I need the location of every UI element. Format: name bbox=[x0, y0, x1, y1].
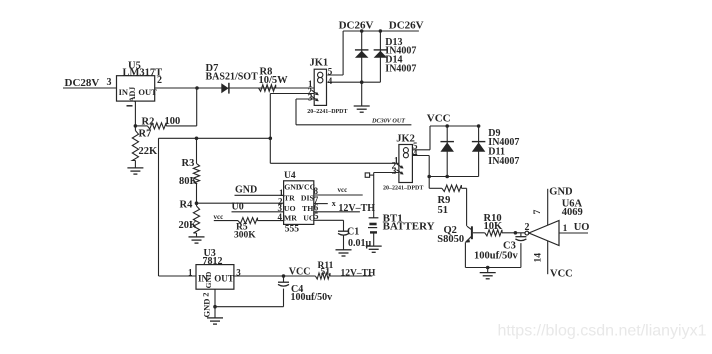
svg-text:5: 5 bbox=[314, 211, 319, 221]
svg-text:DC30V OUT: DC30V OUT bbox=[371, 118, 405, 125]
svg-text:UO: UO bbox=[574, 222, 590, 233]
svg-text:20K: 20K bbox=[179, 220, 199, 231]
svg-text:80K: 80K bbox=[179, 176, 199, 187]
svg-text:U4: U4 bbox=[284, 171, 296, 181]
svg-text:R4: R4 bbox=[180, 200, 194, 211]
svg-text:MR: MR bbox=[284, 214, 297, 223]
svg-text:DC26V: DC26V bbox=[339, 20, 374, 32]
svg-text:VCC: VCC bbox=[289, 267, 311, 278]
svg-text:GND: GND bbox=[202, 299, 212, 318]
svg-text:20–2241–DPDT: 20–2241–DPDT bbox=[383, 186, 423, 192]
svg-text:300K: 300K bbox=[234, 231, 256, 241]
svg-text:ADJ: ADJ bbox=[128, 87, 137, 103]
svg-text:vcc: vcc bbox=[214, 213, 224, 221]
svg-text:3: 3 bbox=[107, 77, 112, 88]
svg-text:12V–TH: 12V–TH bbox=[341, 268, 376, 278]
svg-text:3: 3 bbox=[308, 93, 313, 103]
svg-text:14: 14 bbox=[534, 253, 544, 263]
svg-text:IN4007: IN4007 bbox=[488, 156, 519, 167]
svg-text:DIS: DIS bbox=[301, 193, 314, 202]
svg-text:51: 51 bbox=[321, 268, 331, 278]
svg-text:R7: R7 bbox=[139, 129, 152, 140]
svg-text:3: 3 bbox=[392, 166, 397, 176]
svg-text:x: x bbox=[332, 199, 336, 208]
svg-text:TR: TR bbox=[284, 193, 295, 202]
svg-text:4: 4 bbox=[328, 76, 333, 86]
svg-text:R2: R2 bbox=[142, 116, 155, 127]
svg-text:2: 2 bbox=[157, 75, 162, 86]
svg-text:7812: 7812 bbox=[203, 256, 223, 267]
svg-text:https://blog.csdn.net/lianyiyx: https://blog.csdn.net/lianyiyx1 bbox=[498, 323, 707, 340]
svg-text:JK1: JK1 bbox=[310, 58, 329, 69]
svg-text:R3: R3 bbox=[182, 158, 195, 169]
svg-text:U0: U0 bbox=[232, 202, 244, 213]
svg-text:TH: TH bbox=[302, 204, 313, 213]
svg-text:22K: 22K bbox=[139, 146, 159, 157]
svg-text:10K: 10K bbox=[484, 221, 504, 232]
svg-text:UO: UO bbox=[284, 204, 296, 213]
svg-text:4: 4 bbox=[278, 212, 283, 222]
svg-text:GND: GND bbox=[549, 187, 573, 198]
svg-text:DC26V: DC26V bbox=[389, 20, 424, 32]
svg-text:100uf/50v: 100uf/50v bbox=[291, 292, 333, 303]
svg-text:10/5W: 10/5W bbox=[259, 75, 289, 86]
svg-text:0.01μ: 0.01μ bbox=[348, 238, 372, 249]
svg-text:OUT: OUT bbox=[138, 87, 157, 97]
svg-text:C1: C1 bbox=[347, 227, 359, 238]
svg-text:51: 51 bbox=[438, 205, 449, 216]
svg-text:VCC: VCC bbox=[550, 269, 573, 280]
svg-text:GND: GND bbox=[204, 271, 213, 288]
svg-text:BAS21/SOT: BAS21/SOT bbox=[206, 72, 259, 83]
svg-text:4069: 4069 bbox=[562, 207, 583, 218]
svg-text:GND: GND bbox=[235, 184, 257, 195]
svg-text:OUT: OUT bbox=[214, 273, 234, 283]
svg-text:2: 2 bbox=[201, 292, 211, 296]
svg-text:1: 1 bbox=[563, 224, 568, 234]
svg-text:100uf/50v: 100uf/50v bbox=[474, 250, 519, 261]
svg-text:100: 100 bbox=[165, 116, 181, 127]
svg-text:555: 555 bbox=[285, 224, 300, 234]
svg-text:20–2241–DPDT: 20–2241–DPDT bbox=[307, 109, 347, 115]
svg-text:7: 7 bbox=[533, 209, 543, 214]
svg-text:S8050: S8050 bbox=[437, 234, 464, 245]
svg-text:vcc: vcc bbox=[338, 186, 348, 194]
svg-text:VCC: VCC bbox=[427, 113, 451, 125]
svg-text:12V–TH: 12V–TH bbox=[338, 203, 375, 214]
svg-text:BATTERY: BATTERY bbox=[383, 221, 435, 233]
svg-text:DC28V: DC28V bbox=[65, 77, 100, 89]
svg-text:IN4007: IN4007 bbox=[385, 64, 416, 75]
